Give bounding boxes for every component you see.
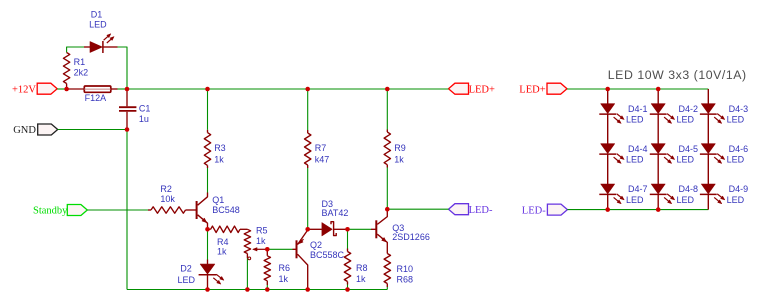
svg-text:D4-8: D4-8 — [679, 184, 699, 194]
wire R3 to Q1 collector — [207, 168, 209, 193]
junction array top col2 — [656, 87, 661, 92]
svg-text:D4-4: D4-4 — [628, 144, 648, 154]
wire R10 bottom — [386, 287, 388, 290]
junction rail/C1 — [125, 87, 130, 92]
svg-text:1k: 1k — [214, 154, 224, 164]
junction R7/D3/Q2 node — [305, 227, 310, 232]
svg-text:LED: LED — [677, 195, 695, 205]
wire LED column 1 — [607, 89, 609, 104]
svg-text:BC558C: BC558C — [310, 250, 345, 260]
svg-text:R1: R1 — [74, 57, 86, 67]
junction GND/C1 — [125, 127, 130, 132]
svg-text:D4-7: D4-7 — [628, 184, 648, 194]
capacitor C1 — [126, 89, 128, 106]
svg-text:LED: LED — [626, 155, 644, 165]
svg-text:1k: 1k — [356, 274, 366, 284]
LED D4-4 — [601, 144, 615, 154]
svg-text:1k: 1k — [394, 154, 404, 164]
svg-text:D1: D1 — [91, 10, 103, 20]
svg-text:R3: R3 — [214, 143, 226, 153]
wire D3 cathode to Q3 base — [348, 228, 372, 230]
transistor Q1 BC548 (NPN) — [196, 201, 198, 219]
transistor Q2 BC558C (PNP) — [293, 248, 297, 250]
wire LED column 3 — [707, 89, 709, 104]
svg-text:LED: LED — [677, 155, 695, 165]
trimmer R5 with wiper arrow — [244, 229, 250, 253]
svg-text:R6: R6 — [279, 263, 291, 273]
svg-text:R7: R7 — [315, 143, 327, 153]
svg-text:R4: R4 — [217, 237, 229, 247]
svg-text:D4-3: D4-3 — [729, 104, 749, 114]
svg-text:D4-1: D4-1 — [628, 104, 648, 114]
svg-text:LED: LED — [727, 195, 745, 205]
junction ground/R6 — [265, 287, 270, 292]
junction D3/R8/Q3 base node — [345, 227, 350, 232]
svg-text:LED-: LED- — [469, 205, 493, 216]
junction rail/R7 — [305, 87, 310, 92]
fuse F1 F12A — [67, 88, 85, 90]
junction ground/D2 — [205, 287, 210, 292]
wire R8 column — [347, 229, 349, 248]
wire R3 column top — [207, 89, 209, 130]
junction ground/R8 — [345, 287, 350, 292]
LED D4-5 — [651, 144, 665, 154]
svg-text:R10: R10 — [397, 264, 414, 274]
svg-text:LED: LED — [677, 115, 695, 125]
svg-text:LED: LED — [177, 275, 195, 285]
svg-text:LED-: LED- — [522, 205, 546, 216]
port LED- (driver) — [449, 204, 469, 215]
svg-text:R5: R5 — [256, 226, 268, 236]
svg-text:Q2: Q2 — [310, 240, 322, 250]
junction ground/R5 — [245, 287, 250, 292]
svg-text:R9: R9 — [394, 143, 406, 153]
svg-text:LED: LED — [727, 115, 745, 125]
wire R7 bottom to D3 node — [307, 168, 309, 229]
wire R9 column top — [386, 89, 388, 130]
svg-text:R2: R2 — [160, 184, 172, 194]
junction rail/R9 — [385, 87, 390, 92]
svg-text:10k: 10k — [160, 194, 175, 204]
svg-text:D4-2: D4-2 — [679, 104, 699, 114]
svg-text:1k: 1k — [279, 274, 289, 284]
transistor Q3 2SD1266 (NPN) — [371, 228, 376, 230]
svg-text:Q1: Q1 — [212, 195, 224, 205]
svg-text:R8: R8 — [356, 263, 368, 273]
LED D4-9 — [701, 184, 715, 194]
junction Q1 emitter node — [205, 227, 210, 232]
wire R5 bottom — [246, 258, 248, 290]
wire fuse out to rail — [118, 88, 128, 90]
svg-text:LED: LED — [727, 155, 745, 165]
svg-text:LED 10W 3x3 (10V/1A): LED 10W 3x3 (10V/1A) — [608, 68, 747, 82]
junction array bottom col1 — [605, 207, 610, 212]
LED D4-2 — [651, 104, 665, 114]
svg-text:2SD1266: 2SD1266 — [392, 232, 430, 242]
wire +12V rail — [127, 88, 449, 90]
wire R7 column top — [307, 89, 309, 130]
wire Standby row — [87, 209, 148, 211]
resistor R4 — [208, 228, 211, 230]
wire D1 top row — [67, 47, 127, 89]
wire array bottom rail — [567, 209, 708, 211]
svg-text:BC548: BC548 — [212, 205, 240, 215]
svg-text:D4-5: D4-5 — [679, 144, 699, 154]
LED D4-8 — [651, 184, 665, 194]
resistor R7 — [307, 130, 309, 133]
wire R6 junction to Q2 base — [267, 248, 292, 250]
svg-text:D2: D2 — [180, 264, 192, 274]
svg-text:D4-6: D4-6 — [729, 144, 749, 154]
LED D2 — [207, 260, 209, 265]
wire Q1 emitter to D2 — [207, 229, 209, 259]
junction R5 wiper/R6 — [265, 247, 270, 252]
wire bottom ground rail — [127, 289, 387, 291]
LED D1 — [84, 46, 90, 48]
resistor R2 — [148, 209, 151, 211]
resistor R6 — [266, 249, 268, 256]
svg-text:D4-9: D4-9 — [729, 184, 749, 194]
svg-text:BAT42: BAT42 — [322, 208, 349, 218]
wire GND row — [58, 129, 127, 131]
svg-text:2k2: 2k2 — [74, 68, 89, 78]
svg-text:F12A: F12A — [85, 93, 107, 103]
resistor R3 — [207, 130, 209, 133]
wire R5 wiper to R6 top junction — [266, 285, 268, 290]
svg-text:+12V: +12V — [12, 85, 36, 96]
svg-text:LED+: LED+ — [519, 85, 545, 96]
wire array top rail — [567, 88, 708, 90]
wire LED column 2 — [657, 89, 659, 104]
wire LED- row — [387, 208, 448, 210]
junction +12V/R1 — [64, 87, 69, 92]
LED D4-1 — [601, 104, 615, 114]
junction array bottom col2 — [656, 207, 661, 212]
svg-text:1k: 1k — [217, 247, 227, 257]
junction array top col1 — [605, 87, 610, 92]
junction ground/Q2 — [305, 287, 310, 292]
port LED+ (driver) — [449, 83, 469, 94]
svg-text:Standby: Standby — [33, 205, 68, 216]
resistor R10 — [384, 254, 390, 284]
wire R9 bottom to LED- node — [386, 168, 388, 210]
svg-text:R68: R68 — [397, 274, 414, 284]
LED D4-3 — [701, 104, 715, 114]
svg-text:GND: GND — [13, 125, 36, 136]
diode D3 BAT42 (Schottky) — [308, 228, 322, 230]
resistor R9 — [386, 130, 388, 133]
wire left vertical ground — [126, 130, 128, 290]
wire +12V flag to junction — [57, 88, 66, 90]
junction rail/R3 — [205, 87, 210, 92]
svg-text:C1: C1 — [139, 103, 151, 113]
junction LED- node — [385, 207, 390, 212]
svg-text:LED: LED — [89, 20, 107, 30]
svg-text:LED: LED — [626, 195, 644, 205]
resistor R8 — [347, 249, 349, 252]
svg-text:LED+: LED+ — [469, 85, 495, 96]
LED D4-6 — [701, 144, 715, 154]
svg-text:LED: LED — [626, 115, 644, 125]
LED D4-7 — [601, 184, 615, 194]
svg-text:1k: 1k — [256, 236, 266, 246]
svg-text:1u: 1u — [139, 114, 149, 124]
wire R8 bottom — [347, 285, 349, 290]
svg-text:k47: k47 — [315, 154, 330, 164]
resistor R1 — [63, 53, 69, 84]
